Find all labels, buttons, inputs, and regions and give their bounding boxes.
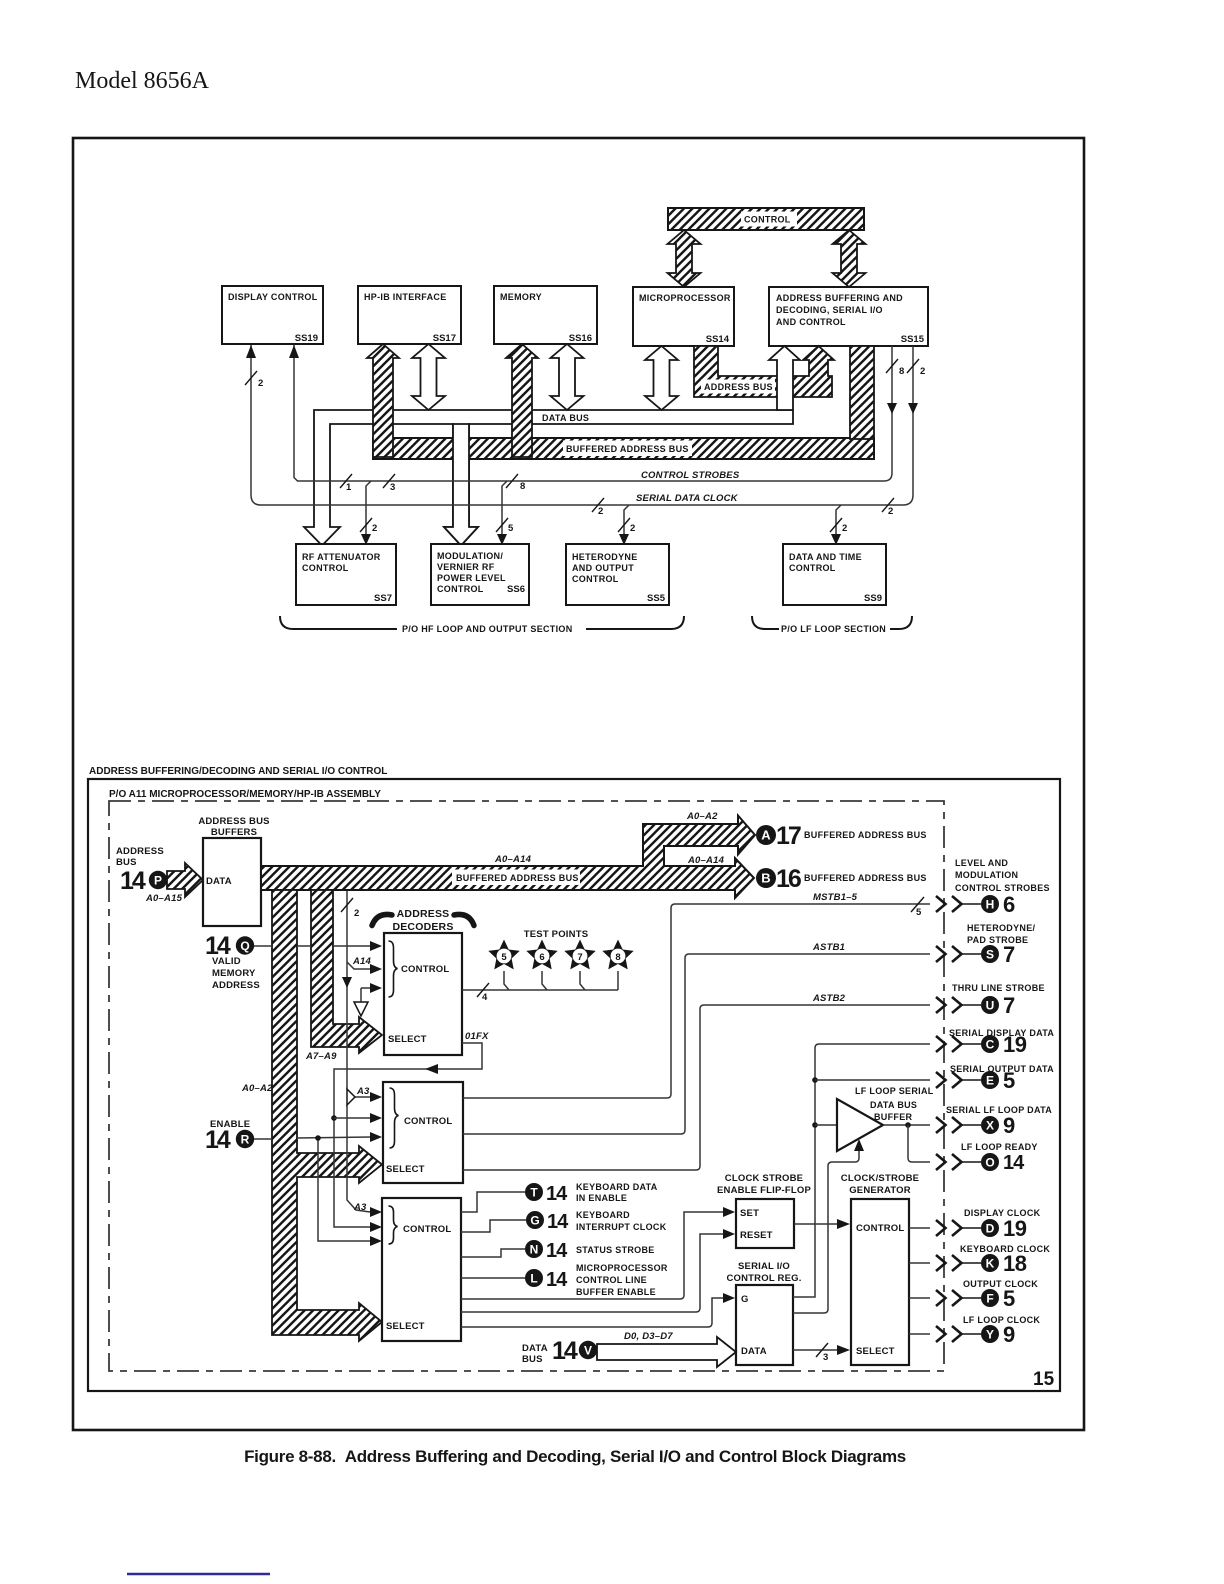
svg-text:14: 14 [547,1211,569,1233]
svg-text:01FX: 01FX [465,1031,489,1042]
svg-text:6: 6 [539,952,544,963]
svg-text:2: 2 [888,506,893,517]
connector O 14 LF loop ready [936,1142,1038,1174]
svg-text:7: 7 [577,952,582,963]
svg-text:N: N [530,1243,539,1257]
label ADDRESS BUS BUFFERS [198,816,269,838]
svg-text:DATA: DATA [741,1346,767,1357]
svg-text:17: 17 [776,822,801,850]
wire A3 into decoder3 [353,1202,382,1217]
svg-text:BUFFER ENABLE: BUFFER ENABLE [576,1287,656,1297]
white double arrow MICROPROCESSOR to DATA BUS [645,346,678,410]
bus CONTROL (hatched bar) [668,208,864,230]
connector 14 P address bus input [116,846,167,895]
svg-text:SERIAL DISPLAY DATA: SERIAL DISPLAY DATA [949,1028,1054,1038]
svg-text:ADDRESS: ADDRESS [212,980,260,991]
svg-text:SS15: SS15 [901,334,925,345]
svg-text:16: 16 [776,865,801,893]
svg-text:ADDRESS: ADDRESS [397,908,450,920]
svg-text:A7–A9: A7–A9 [305,1051,337,1062]
svg-text:RESET: RESET [740,1230,773,1241]
svg-text:X: X [986,1119,994,1133]
svg-text:CLOCK STROBE: CLOCK STROBE [725,1173,803,1184]
svg-text:SELECT: SELECT [856,1346,895,1357]
svg-text:1: 1 [346,482,352,493]
wire flip-flop to clock/strobe generator control [794,1219,850,1229]
svg-text:9: 9 [1003,1113,1015,1138]
hatched arrow HP-IB to BUFFERED ADDRESS BUS [367,344,399,457]
svg-text:VALID: VALID [212,956,241,967]
block ADDRESS BUFFERING AND DECODING SERIAL I/O AND CONTROL SS15 [769,287,928,346]
svg-text:MODULATION: MODULATION [955,870,1018,880]
svg-text:POWER LEVEL: POWER LEVEL [437,573,506,583]
svg-text:5: 5 [508,523,514,534]
svg-text:ADDRESS BUS: ADDRESS BUS [704,382,773,392]
svg-text:SELECT: SELECT [388,1034,427,1045]
svg-text:SS14: SS14 [706,334,730,345]
svg-text:Model 8656A: Model 8656A [75,68,210,94]
svg-text:V: V [584,1344,592,1358]
test point star 6 [526,940,557,991]
svg-text:A3: A3 [356,1086,370,1097]
svg-text:H: H [986,898,995,912]
block DATA AND TIME CONTROL SS9 [783,544,886,605]
svg-text:SS5: SS5 [647,593,666,604]
svg-text:2: 2 [842,523,847,534]
svg-text:2: 2 [598,506,603,517]
connector L 14 microprocessor control line buffer enable [461,1263,668,1297]
svg-text:14: 14 [205,1126,231,1154]
flip-flop U4 clock strobe enable [717,1173,811,1248]
wire A3 tap into decoder2 [347,1086,382,1212]
svg-text:MICROPROCESSOR: MICROPROCESSOR [639,293,731,303]
svg-text:Figure 8-88. Address Bufferin: Figure 8-88. Address Buffering and Decod… [244,1447,906,1466]
svg-text:LF LOOP SERIAL: LF LOOP SERIAL [855,1086,934,1096]
svg-text:DATA BUS: DATA BUS [542,413,589,423]
svg-text:KEYBOARD CLOCK: KEYBOARD CLOCK [960,1244,1050,1254]
bus ADDRESS BUS (hatched L from MICROPROCESSOR with arrow into SS15) [694,346,834,397]
white arrow DATA BUS to MODULATION (over buffered address bus) [444,424,478,546]
net CONTROL STROBES label and slashes [340,470,740,493]
svg-text:AND CONTROL: AND CONTROL [776,317,846,327]
svg-text:RF ATTENUATOR: RF ATTENUATOR [302,552,381,562]
svg-text:14: 14 [1003,1152,1025,1174]
svg-text:CONTROL REG.: CONTROL REG. [726,1273,801,1284]
bus DATA BUS (open bus with arrows to SS7 and SS6) [304,410,793,546]
svg-text:PAD STROBE: PAD STROBE [967,935,1028,945]
svg-text:CLOCK/STROBE: CLOCK/STROBE [841,1173,919,1184]
svg-text:T: T [530,1186,538,1200]
svg-text:CONTROL: CONTROL [437,584,484,594]
label ADDRESS DECODERS [372,908,474,933]
svg-text:2: 2 [258,378,263,389]
svg-text:2: 2 [354,908,359,919]
svg-text:18: 18 [1003,1251,1027,1276]
generator U7 clock/strobe generator [841,1173,919,1365]
svg-text:SS6: SS6 [507,584,525,595]
svg-text:P/O LF LOOP SECTION: P/O LF LOOP SECTION [781,624,886,634]
block MEMORY SS16 [494,286,597,344]
svg-text:CONTROL: CONTROL [401,964,449,975]
wire branch to HETERODYNE /2 [618,505,635,545]
bus column A0-A2 with select arms to decoder2 and decoder3 [241,890,382,1341]
svg-text:SET: SET [740,1208,759,1219]
svg-text:BUFFERED ADDRESS BUS: BUFFERED ADDRESS BUS [804,830,927,840]
connector B 16 buffered address bus [756,865,927,893]
wire A14/A3 /2 from buffered address bus [341,891,359,1086]
wire branch to RF ATTENUATOR /2 [360,481,377,545]
svg-text:SELECT: SELECT [386,1321,425,1332]
boundary P/O A11 assembly (dash-dot) [109,801,944,1371]
svg-text:CONTROL: CONTROL [404,1116,452,1127]
svg-text:CONTROL: CONTROL [744,215,791,225]
wire enable to decoder2 and decoder3 [254,1132,382,1246]
svg-text:LF LOOP CLOCK: LF LOOP CLOCK [963,1315,1040,1325]
svg-text:A: A [761,828,771,843]
block HP-IB INTERFACE SS17 [358,286,461,344]
svg-text:BUFFER: BUFFER [874,1112,912,1122]
svg-text:7: 7 [1003,942,1015,967]
footer rule (blue) [127,1573,270,1576]
bus BUFFERED ADDRESS BUS main with A17 and B16 branches [261,811,755,898]
bus hatched arrow into DATA buffer [145,863,203,904]
svg-text:CONTROL: CONTROL [572,574,619,584]
svg-text:6: 6 [1003,892,1015,917]
brace P/O LF LOOP SECTION [752,616,912,634]
svg-text:K: K [986,1257,995,1271]
brace P/O HF LOOP AND OUTPUT SECTION [280,616,684,634]
svg-text:2: 2 [920,366,925,377]
svg-text:2: 2 [372,523,377,534]
connector 14 V data bus [522,1337,597,1365]
white double arrow HP-IB to DATA BUS [412,344,445,410]
svg-text:BUS: BUS [522,1354,543,1365]
svg-text:SELECT: SELECT [386,1164,425,1175]
white arrow DATA BUS to SS15 [769,346,800,410]
svg-text:4: 4 [482,992,488,1003]
svg-text:CONTROL STROBES: CONTROL STROBES [641,470,740,481]
svg-text:A0–A15: A0–A15 [145,893,183,904]
svg-text:CONTROL STROBES: CONTROL STROBES [955,883,1050,893]
svg-text:MICROPROCESSOR: MICROPROCESSOR [576,1263,668,1273]
connector F 5 output clock [936,1279,1038,1311]
wire ASTB1 decoder2 to connector S [463,942,930,1134]
lower diagram border [88,779,1060,1391]
svg-text:INTERRUPT CLOCK: INTERRUPT CLOCK [576,1222,667,1232]
svg-text:P/O A11 MICROPROCESSOR/MEMORY/: P/O A11 MICROPROCESSOR/MEMORY/HP-IB ASSE… [109,789,381,800]
svg-text:R: R [241,1133,250,1147]
svg-text:15: 15 [1033,1369,1055,1390]
block RF ATTENUATOR CONTROL SS7 [296,544,396,605]
svg-text:BUFFERED ADDRESS BUS: BUFFERED ADDRESS BUS [566,444,689,454]
svg-text:14: 14 [546,1183,568,1205]
wire decoder3 to flip-flop SET [461,1207,735,1299]
connector G 14 keyboard interrupt clock [461,1210,667,1233]
svg-text:LEVEL AND: LEVEL AND [955,858,1008,868]
svg-text:CONTROL: CONTROL [403,1224,451,1235]
connector E 5 serial output data [936,1064,1054,1093]
svg-text:DECODERS: DECODERS [392,921,453,933]
svg-text:ASTB1: ASTB1 [812,942,845,953]
wire display clock to connector D [909,1227,930,1229]
svg-text:A14: A14 [352,956,372,967]
svg-text:A0–A2: A0–A2 [686,811,718,822]
svg-text:3: 3 [390,482,395,493]
svg-text:L: L [530,1272,537,1286]
svg-text:E: E [986,1074,994,1088]
hatched arrow MEMORY to BUFFERED ADDRESS BUS [506,344,538,457]
svg-text:7: 7 [1003,993,1015,1018]
connector K 18 keyboard clock [936,1244,1050,1276]
bus BUFFERED ADDRESS BUS (hatched bar) [373,438,874,459]
connector T 14 keyboard data in enable [461,1182,658,1212]
svg-text:5: 5 [1003,1286,1015,1311]
register U5 serial I/O control reg [726,1261,801,1365]
svg-text:SS7: SS7 [374,593,392,604]
test points star 5 [462,929,618,1003]
svg-text:8: 8 [899,366,904,377]
connector X 9 serial LF loop data [936,1105,1052,1138]
connector H 6 level and modulation control strobes [936,858,1050,917]
block DATA (address bus buffers) [203,838,261,926]
svg-text:CONTROL: CONTROL [789,563,836,573]
svg-text:HETERODYNE: HETERODYNE [572,552,638,562]
svg-text:ADDRESS BUS: ADDRESS BUS [198,816,269,827]
svg-text:3: 3 [823,1352,828,1363]
decoder U1 (address decoder 1) [384,933,462,1055]
wire valid memory address into decoder1 [254,941,382,951]
svg-text:SS16: SS16 [569,333,592,344]
svg-text:SERIAL I/O: SERIAL I/O [738,1261,790,1272]
svg-text:P/O HF LOOP AND OUTPUT SECTION: P/O HF LOOP AND OUTPUT SECTION [402,624,573,634]
svg-text:14: 14 [552,1337,578,1365]
connector C 19 serial display data [936,1028,1054,1057]
svg-text:BUFFERED ADDRESS BUS: BUFFERED ADDRESS BUS [804,873,927,883]
svg-text:14: 14 [120,867,146,895]
wire output clock to connector F [909,1297,930,1299]
svg-text:BUFFERS: BUFFERS [211,827,257,838]
svg-text:Q: Q [240,939,249,953]
svg-text:ASTB2: ASTB2 [812,993,846,1004]
svg-text:8: 8 [615,952,620,963]
svg-text:5: 5 [916,907,922,918]
svg-text:D0, D3–D7: D0, D3–D7 [624,1331,673,1342]
svg-text:MSTB1–5: MSTB1–5 [813,892,858,903]
net SERIAL DATA CLOCK label and slashes [592,493,894,517]
test point star 8 [602,940,633,991]
wire decoder3 to flip-flop RESET [461,1229,735,1312]
svg-text:GENERATOR: GENERATOR [849,1185,911,1196]
svg-text:HP-IB INTERFACE: HP-IB INTERFACE [364,292,447,302]
svg-text:AND OUTPUT: AND OUTPUT [572,563,634,573]
svg-text:MEMORY: MEMORY [500,292,542,302]
svg-text:VERNIER RF: VERNIER RF [437,562,495,572]
block MICROPROCESSOR SS14 [633,287,734,346]
svg-text:B: B [761,871,770,886]
svg-text:8: 8 [520,481,525,492]
svg-text:DISPLAY CONTROL: DISPLAY CONTROL [228,292,318,302]
svg-text:DATA AND TIME: DATA AND TIME [789,552,862,562]
svg-text:2: 2 [630,523,635,534]
block DISPLAY CONTROL SS19 [222,286,323,344]
svg-text:MODULATION/: MODULATION/ [437,551,503,561]
wire control strobes /8 from SS15 [289,345,904,481]
wire LF loop clock to connector Y [909,1333,930,1335]
svg-text:G: G [530,1214,539,1228]
wire branch to DATA AND TIME /2 [830,505,847,545]
svg-text:MEMORY: MEMORY [212,968,256,979]
svg-text:14: 14 [546,1269,568,1291]
hatched double arrow CONTROL to MICROPROCESSOR [668,230,701,287]
svg-text:DATA: DATA [522,1343,548,1354]
svg-text:STATUS STROBE: STATUS STROBE [576,1245,655,1255]
connector A 17 buffered address bus [756,822,927,850]
hatched double arrow CONTROL to SS15 [833,230,866,287]
svg-text:SERIAL DATA CLOCK: SERIAL DATA CLOCK [636,493,739,504]
svg-text:SS17: SS17 [433,333,456,344]
block HETERODYNE AND OUTPUT CONTROL SS5 [566,544,669,605]
wire keyboard clock to connector K [909,1262,930,1264]
white double arrow MEMORY to DATA BUS [551,344,584,410]
outer figure border frame [73,138,1084,1430]
wire decoder1 third input with tap triangle [354,983,382,1016]
svg-text:P: P [154,874,162,888]
svg-text:A3: A3 [353,1202,367,1213]
decoder U3 (address decoder 3) [382,1198,461,1341]
block MODULATION VERNIER RF POWER LEVEL CONTROL SS6 [431,544,529,605]
svg-text:ADDRESS BUFFERING AND: ADDRESS BUFFERING AND [776,293,903,303]
svg-text:A0–A14: A0–A14 [494,854,532,865]
svg-text:DECODING, SERIAL I/O: DECODING, SERIAL I/O [776,305,883,315]
svg-text:D: D [986,1222,995,1236]
svg-text:ADDRESS: ADDRESS [116,846,164,857]
svg-text:C: C [986,1038,995,1052]
svg-text:F: F [986,1292,993,1306]
wire branch to MODULATION /5 [496,481,514,545]
svg-text:ENABLE FLIP-FLOP: ENABLE FLIP-FLOP [717,1185,811,1196]
svg-text:G: G [741,1294,749,1305]
svg-text:Y: Y [986,1328,994,1342]
decoder U2 (address decoder 2) [383,1082,463,1183]
svg-text:THRU LINE STROBE: THRU LINE STROBE [952,983,1045,993]
svg-text:DATA: DATA [206,876,232,887]
connector S 7 heterodyne/pad strobe [936,923,1036,967]
svg-text:SERIAL LF LOOP DATA: SERIAL LF LOOP DATA [946,1105,1052,1115]
svg-text:LF LOOP READY: LF LOOP READY [961,1142,1038,1152]
svg-text:TEST POINTS: TEST POINTS [524,929,588,940]
wire LF loop ready to connector O [908,1125,930,1162]
svg-text:DISPLAY CLOCK: DISPLAY CLOCK [964,1208,1041,1218]
wire serial LF loop data buffer output to connector X [883,1122,930,1128]
bus column A7-A9 with select arm to decoder1 [305,890,382,1062]
svg-text:S: S [986,948,994,962]
wire serial data clock /2 from SS15 [245,345,925,505]
test point star 7 [564,940,595,991]
svg-text:CONTROL: CONTROL [302,563,349,573]
svg-text:KEYBOARD: KEYBOARD [576,1210,630,1220]
svg-text:CONTROL: CONTROL [856,1223,904,1234]
svg-text:9: 9 [1003,1322,1015,1347]
svg-text:SERIAL OUTPUT DATA: SERIAL OUTPUT DATA [950,1064,1054,1074]
svg-text:ADDRESS BUFFERING/DECODING AND: ADDRESS BUFFERING/DECODING AND SERIAL I/… [89,766,387,777]
wire decoder3 to serial I/O reg G [461,1293,735,1327]
svg-text:14: 14 [546,1240,568,1262]
svg-text:U: U [986,999,995,1013]
svg-text:IN ENABLE: IN ENABLE [576,1193,627,1203]
wire reg DATA out /3 to generator select [793,1343,850,1363]
connector N 14 status strobe [461,1240,655,1262]
svg-text:A0–A2: A0–A2 [241,1083,273,1094]
svg-text:A0–A14: A0–A14 [687,855,725,866]
svg-text:HETERODYNE/: HETERODYNE/ [967,923,1036,933]
bus data D0,D3-D7 white arrow into reg DATA [597,1331,736,1367]
connector 14 Q valid memory address [205,932,260,991]
connector D 19 display clock [936,1208,1041,1241]
connector 14 R enable [205,1119,254,1154]
connector Y 9 LF loop clock [936,1315,1040,1347]
wire ASTB2 decoder2 to connector U [463,993,930,1170]
buffer U6 LF loop serial data bus buffer [837,1086,934,1151]
wire MSTB1-5 decoder2 to connector H [463,892,930,1098]
wire reg G out2 to buffer enable [793,1139,864,1313]
wire A14 tap into decoder1 [347,956,382,974]
svg-text:19: 19 [1003,1216,1027,1241]
svg-text:BUFFERED ADDRESS BUS: BUFFERED ADDRESS BUS [456,873,579,883]
svg-text:O: O [985,1156,994,1170]
svg-text:SS19: SS19 [295,333,318,344]
connector U 7 thru line strobe [936,983,1045,1018]
svg-text:DATA BUS: DATA BUS [870,1100,917,1110]
wire serial output data from reg G out [793,1044,930,1297]
svg-text:CONTROL LINE: CONTROL LINE [576,1275,647,1285]
svg-text:OUTPUT CLOCK: OUTPUT CLOCK [963,1279,1038,1289]
svg-text:5: 5 [501,952,507,963]
svg-text:SS9: SS9 [864,593,882,604]
hatched column SS15 to BUFFERED ADDRESS BUS [850,346,874,439]
wire 01FX from decoder1 to decoder2 and decoder3 [331,1031,489,1232]
svg-text:KEYBOARD DATA: KEYBOARD DATA [576,1182,658,1192]
